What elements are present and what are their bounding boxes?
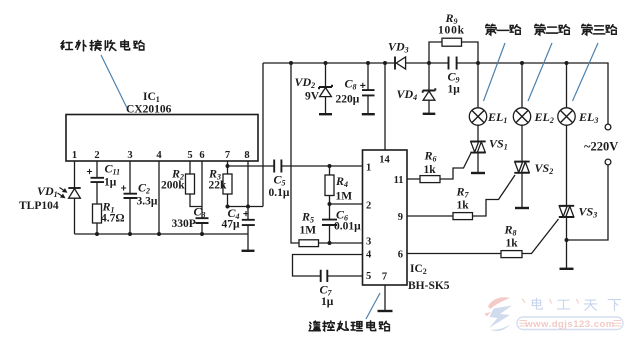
leader line to IC1 (101, 55, 127, 108)
resistor R6 1k (420, 176, 440, 183)
triac VS3 (559, 206, 574, 217)
wire: IC2 pin14 to rail (384, 63, 386, 150)
svg-text:9V: 9V (305, 91, 320, 103)
resistor R8 1k (501, 251, 522, 258)
IC1 box CX20106 (66, 115, 258, 162)
svg-text:200k: 200k (161, 180, 185, 192)
svg-text:3: 3 (127, 150, 132, 161)
leader line 2 (528, 43, 552, 101)
svg-text:5: 5 (187, 150, 192, 161)
triac VS1 (470, 141, 485, 152)
svg-text:9: 9 (398, 212, 403, 223)
svg-text:4.7Ω: 4.7Ω (101, 213, 125, 225)
terminal upper (605, 124, 611, 130)
label 第二路 (535, 24, 570, 35)
IC1 pin numbers (72, 150, 250, 161)
svg-text:3.3μ: 3.3μ (137, 196, 158, 208)
triac VS2 (514, 162, 529, 173)
svg-text:1M: 1M (336, 191, 353, 203)
capacitor C2 (124, 194, 138, 198)
svg-text:5: 5 (366, 271, 371, 282)
wire R6 to VS1 gate (440, 153, 471, 179)
svg-text:14: 14 (379, 155, 390, 166)
wire pin3 down (129, 161, 131, 193)
watermark url box (517, 317, 623, 330)
svg-text:1: 1 (366, 163, 371, 174)
svg-text:1k: 1k (457, 200, 470, 212)
wire pin2 down (96, 161, 98, 177)
leader line to IC2 (366, 293, 380, 319)
svg-text:0.01μ: 0.01μ (334, 221, 361, 233)
photodiode VD1 TLP104 (68, 187, 80, 189)
label 第一路 (486, 24, 521, 35)
svg-text:2: 2 (366, 201, 371, 212)
svg-text:1M: 1M (300, 225, 317, 237)
resistor R2 (186, 174, 195, 194)
leader line 3 (573, 43, 599, 101)
wire IC2 pin11 (407, 178, 420, 180)
rail junction dots (289, 61, 293, 65)
capacitor C9 in rail (449, 57, 457, 70)
wire IC2 pin9 (407, 215, 453, 217)
svg-text:2: 2 (94, 150, 99, 161)
svg-text:0.1μ: 0.1μ (269, 187, 290, 199)
ground bar under C4 (242, 250, 255, 252)
wire IC2 pin6 (407, 253, 501, 255)
wire link R3/C4/rail-drop at y206.5 (228, 206, 264, 208)
capacitor C7 1u (321, 270, 328, 282)
resistor R3 (223, 174, 232, 194)
svg-text:3: 3 (366, 237, 371, 248)
wire: vertical from rail down right of IC1 (262, 63, 264, 207)
wire: top rail VD3 to C9 (406, 62, 449, 64)
svg-text:47μ: 47μ (222, 219, 241, 231)
label 第三路 (582, 24, 617, 35)
junction dots pin7/pin8 area (226, 164, 230, 168)
svg-text:1μ: 1μ (448, 84, 461, 96)
svg-text:4: 4 (156, 150, 162, 161)
wire pin1 down (74, 161, 76, 188)
svg-text:1k: 1k (424, 164, 437, 176)
svg-text:6: 6 (398, 250, 403, 261)
zener VD2 9V (325, 63, 327, 87)
capacitor C6 0.01u (322, 220, 337, 225)
diode VD3 (394, 57, 396, 70)
terminal lower + wire to VS3 (605, 159, 611, 165)
wire: +9V top rail left segment (263, 62, 395, 64)
wire: vertical from rail down to R5 (291, 63, 299, 243)
lamp EL3 (566, 63, 568, 108)
svg-text:1μ: 1μ (104, 177, 117, 189)
wire pin6 down (201, 161, 203, 218)
capacitor C3 (196, 218, 209, 223)
capacitor C5 coupling (228, 165, 274, 167)
lamp EL1 (477, 63, 479, 108)
svg-text:8: 8 (244, 150, 249, 161)
wire pin4 to ground bus (158, 161, 160, 234)
svg-text:6: 6 (199, 150, 204, 161)
ground bus of IC1 (75, 233, 249, 235)
lamp EL2 (521, 63, 523, 108)
junction dots on bus (95, 232, 99, 236)
watermark text 电工天下 (532, 298, 621, 310)
label 红外接收电路 (61, 40, 144, 51)
zener VD4 (428, 63, 430, 90)
resistor R4 1M (328, 164, 332, 168)
resistor R7 1k (453, 213, 473, 220)
svg-text:11: 11 (394, 175, 404, 186)
svg-text:4: 4 (366, 250, 372, 261)
svg-text:1k: 1k (506, 238, 519, 250)
label 遥控处理电路 (309, 321, 390, 331)
leader line 1 (484, 43, 506, 101)
svg-text:100k: 100k (438, 25, 465, 37)
watermark logo (485, 297, 513, 331)
svg-text:7: 7 (225, 150, 230, 161)
IC2 pin7 ground (384, 285, 386, 311)
svg-text:7: 7 (382, 272, 387, 283)
wire: top rail C9 to right corner, down to terminal (457, 63, 608, 124)
svg-text:220μ: 220μ (336, 94, 360, 106)
capacitor C11 (91, 178, 105, 182)
resistor R5 1M (299, 240, 319, 247)
svg-text:www.dgjs123.com: www.dgjs123.com (524, 319, 615, 330)
svg-text:330P: 330P (172, 218, 196, 230)
capacitor C4 (247, 207, 249, 220)
wire IC2 pin4 loop (293, 255, 363, 277)
wire pin5 down (189, 161, 191, 174)
IC2 box BH-SK5 (363, 150, 408, 285)
svg-text:1: 1 (72, 150, 77, 161)
svg-text:BH-SK5: BH-SK5 (408, 280, 450, 292)
svg-text:~220V: ~220V (584, 140, 618, 154)
resistor R9 100k bridge (429, 42, 442, 63)
resistor R1 (93, 204, 102, 223)
wire R7 to VS2 gate (473, 175, 516, 216)
capacitor C8 220u (367, 63, 369, 90)
svg-text:1μ: 1μ (321, 296, 334, 308)
wire IC2 pin2 (328, 202, 332, 206)
wire R8 to VS3 gate (522, 219, 559, 254)
wire pin7 down (227, 161, 229, 174)
svg-text:22k: 22k (209, 180, 228, 192)
wire pin8 down (247, 161, 249, 207)
svg-text:CX20106: CX20106 (126, 104, 172, 116)
svg-text:TLP104: TLP104 (19, 200, 59, 212)
